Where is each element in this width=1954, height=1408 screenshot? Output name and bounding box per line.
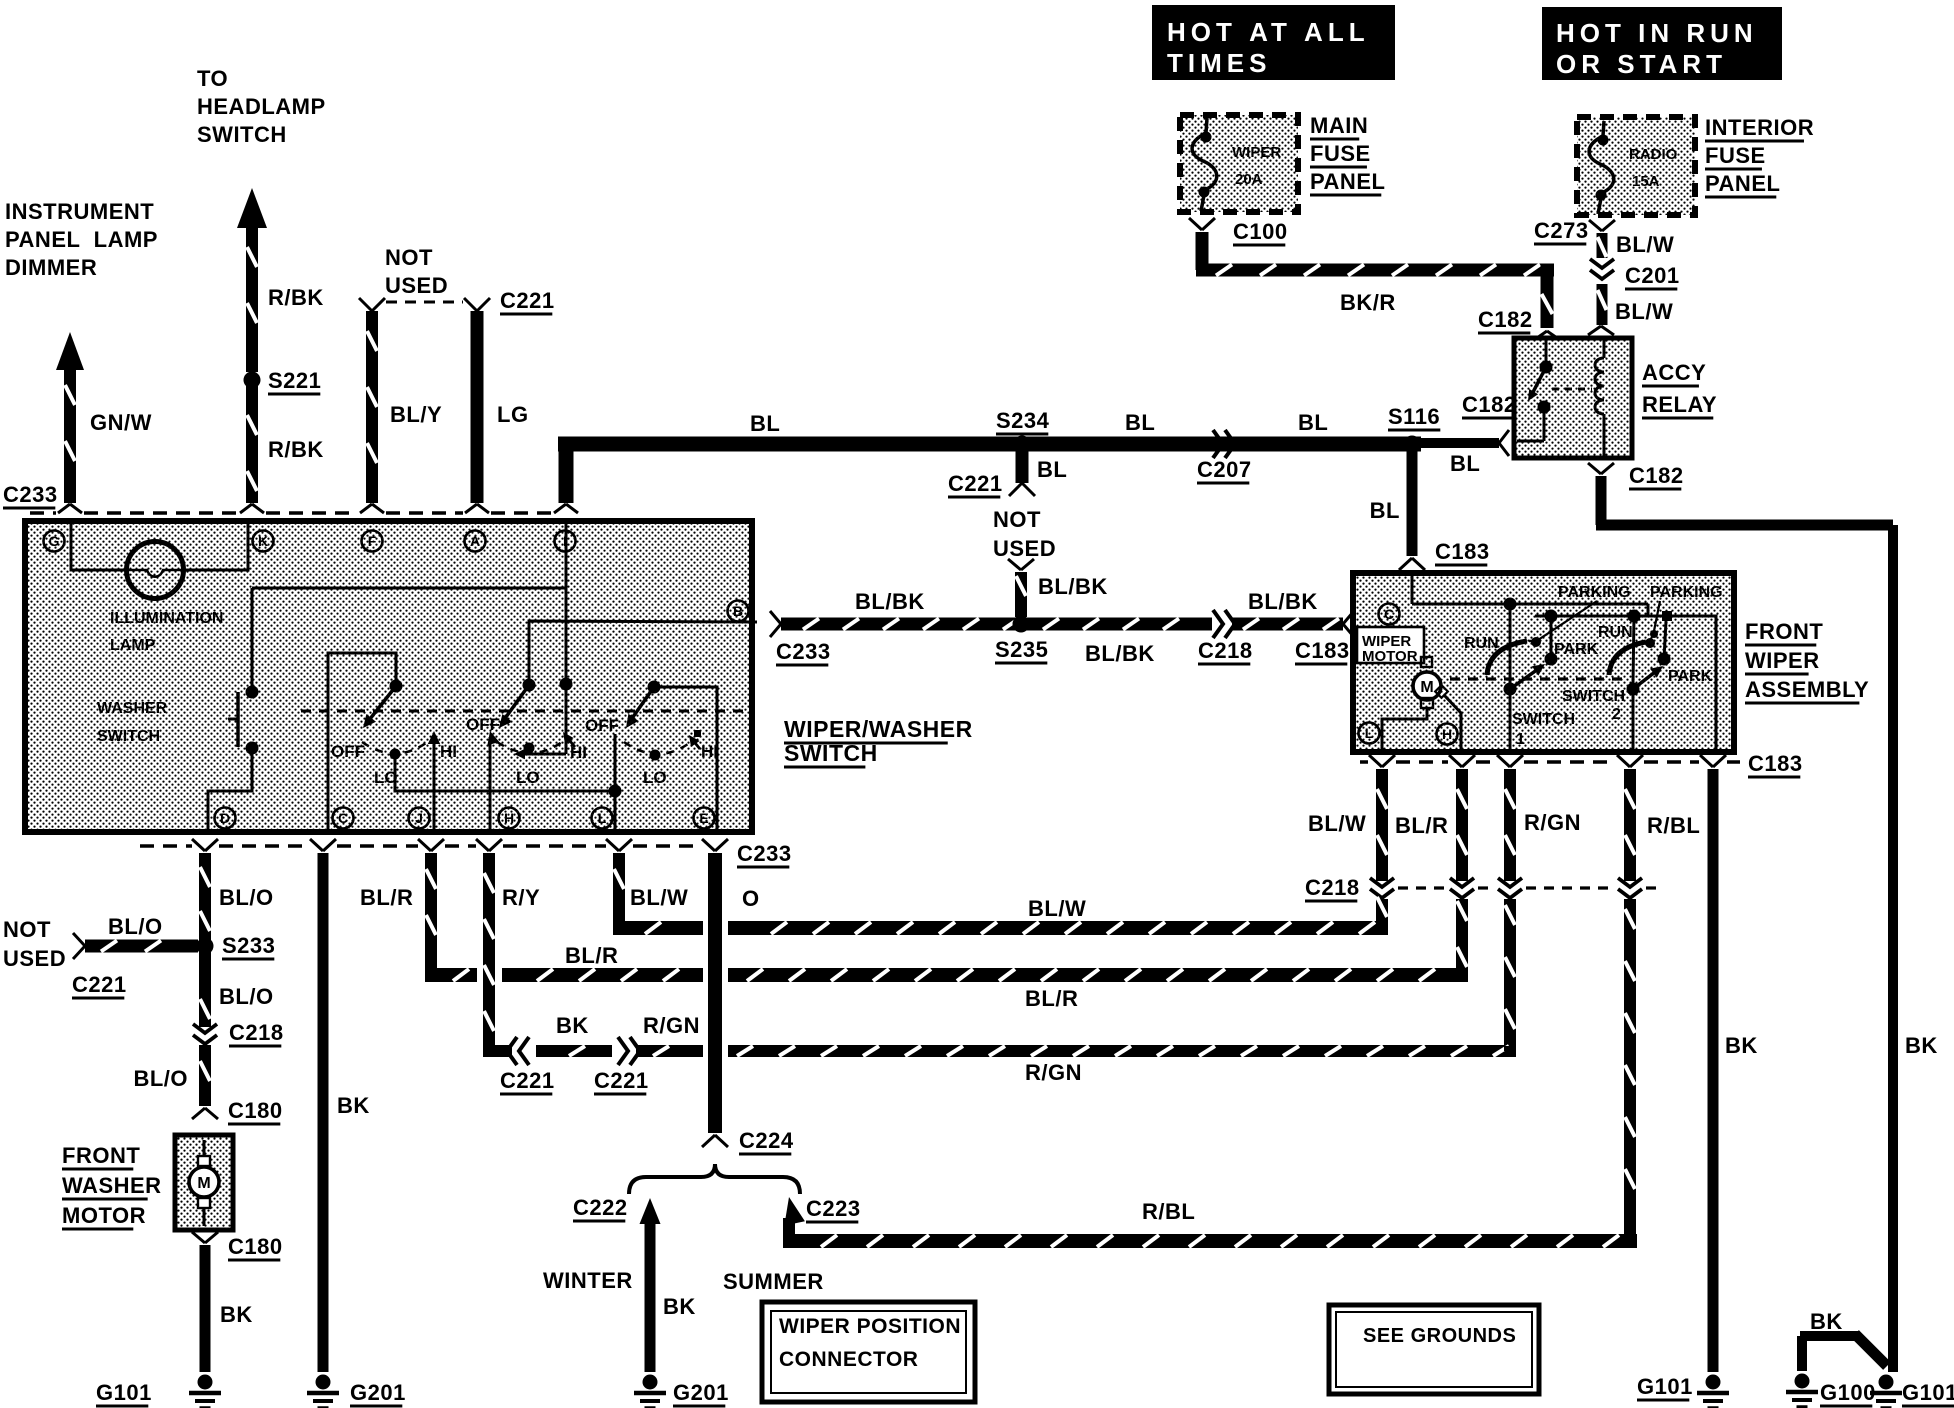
svg-text:BL/R: BL/R	[565, 943, 618, 968]
svg-text:R/GN: R/GN	[643, 1013, 700, 1038]
svg-text:OFF: OFF	[466, 715, 500, 734]
svg-text:HI: HI	[570, 743, 587, 762]
svg-text:C223: C223	[806, 1196, 861, 1221]
svg-text:WIPER: WIPER	[1745, 648, 1820, 673]
svg-text:S235: S235	[995, 637, 1048, 662]
svg-text:NOT: NOT	[3, 917, 51, 942]
svg-text:15A: 15A	[1632, 173, 1660, 190]
svg-text:LO: LO	[643, 768, 667, 787]
svg-text:G101: G101	[1902, 1380, 1954, 1405]
svg-text:LAMP: LAMP	[110, 637, 156, 654]
svg-text:C207: C207	[1197, 457, 1252, 482]
svg-text:HOT AT ALL: HOT AT ALL	[1167, 17, 1370, 47]
svg-text:BK: BK	[220, 1302, 253, 1327]
svg-text:C222: C222	[573, 1195, 628, 1220]
svg-text:C221: C221	[948, 471, 1003, 496]
svg-text:R/BL: R/BL	[1142, 1199, 1195, 1224]
svg-text:M: M	[197, 1175, 210, 1192]
svg-text:B: B	[733, 603, 743, 619]
svg-text:C233: C233	[3, 482, 58, 507]
svg-text:BL: BL	[750, 411, 780, 436]
svg-text:SWITCH: SWITCH	[1512, 711, 1575, 728]
svg-text:G101: G101	[1637, 1374, 1693, 1399]
svg-text:F: F	[368, 533, 377, 549]
svg-text:WIPER/WASHER: WIPER/WASHER	[784, 716, 973, 742]
svg-text:O: O	[742, 886, 760, 911]
svg-text:USED: USED	[993, 536, 1056, 561]
svg-text:BL: BL	[1298, 410, 1328, 435]
svg-text:R/GN: R/GN	[1524, 810, 1581, 835]
svg-text:C182: C182	[1462, 392, 1517, 417]
svg-text:BL/W: BL/W	[1615, 299, 1673, 324]
svg-text:R/BL: R/BL	[1647, 813, 1700, 838]
svg-text:OFF: OFF	[585, 716, 619, 735]
svg-text:WASHER: WASHER	[97, 700, 168, 717]
svg-text:J: J	[415, 810, 423, 826]
svg-text:G201: G201	[673, 1380, 729, 1405]
svg-text:H: H	[504, 810, 514, 826]
svg-text:2: 2	[1612, 706, 1621, 723]
svg-text:R/BK: R/BK	[268, 285, 324, 310]
svg-text:BL/O: BL/O	[219, 984, 274, 1009]
svg-text:K: K	[258, 533, 268, 549]
svg-text:TIMES: TIMES	[1167, 48, 1271, 78]
svg-text:SWITCH: SWITCH	[1562, 688, 1625, 705]
svg-text:C182: C182	[1478, 307, 1533, 332]
svg-text:HEADLAMP: HEADLAMP	[197, 94, 326, 119]
svg-text:E: E	[699, 810, 708, 826]
svg-text:BL/O: BL/O	[133, 1066, 188, 1091]
svg-text:ACCY: ACCY	[1642, 360, 1706, 385]
svg-text:C180: C180	[228, 1098, 283, 1123]
svg-text:LO: LO	[374, 768, 398, 787]
svg-text:CONNECTOR: CONNECTOR	[779, 1348, 918, 1371]
svg-text:RUN: RUN	[1464, 635, 1499, 652]
svg-text:C218: C218	[1305, 875, 1360, 900]
svg-text:C218: C218	[229, 1020, 284, 1045]
svg-text:PARKING: PARKING	[1558, 584, 1631, 601]
svg-text:WINTER: WINTER	[543, 1268, 633, 1293]
svg-text:USED: USED	[3, 946, 66, 971]
svg-text:BK/R: BK/R	[1340, 290, 1396, 315]
svg-text:BL/BK: BL/BK	[855, 589, 925, 614]
svg-text:PARKING: PARKING	[1650, 584, 1723, 601]
svg-text:BL/BK: BL/BK	[1038, 574, 1108, 599]
svg-text:C182: C182	[1629, 463, 1684, 488]
svg-text:H: H	[1442, 726, 1452, 742]
svg-text:C: C	[338, 810, 348, 826]
svg-text:ILLUMINATION: ILLUMINATION	[110, 610, 223, 627]
svg-text:R/GN: R/GN	[1025, 1060, 1082, 1085]
svg-text:BK: BK	[1725, 1033, 1758, 1058]
svg-text:R/Y: R/Y	[502, 885, 540, 910]
svg-text:C: C	[1384, 606, 1394, 622]
svg-text:MAIN: MAIN	[1310, 113, 1368, 138]
svg-text:DIMMER: DIMMER	[5, 255, 97, 280]
svg-text:FUSE: FUSE	[1310, 141, 1371, 166]
svg-text:C201: C201	[1625, 263, 1680, 288]
svg-text:TO: TO	[197, 66, 228, 91]
svg-text:C100: C100	[1233, 219, 1288, 244]
svg-text:WASHER: WASHER	[62, 1173, 162, 1198]
svg-text:20A: 20A	[1235, 171, 1263, 188]
svg-text:C273: C273	[1534, 218, 1589, 243]
svg-text:C218: C218	[1198, 638, 1253, 663]
svg-text:S234: S234	[996, 408, 1050, 433]
svg-text:BL/W: BL/W	[1308, 811, 1366, 836]
svg-text:HI: HI	[440, 742, 457, 761]
svg-text:C221: C221	[594, 1068, 649, 1093]
svg-text:RADIO: RADIO	[1629, 146, 1678, 163]
svg-text:HI: HI	[701, 742, 718, 761]
svg-text:M: M	[1420, 679, 1433, 696]
svg-text:G201: G201	[350, 1380, 406, 1405]
svg-text:L: L	[1365, 725, 1374, 741]
svg-text:PARK: PARK	[1554, 641, 1599, 658]
svg-text:BK: BK	[1905, 1033, 1938, 1058]
svg-text:C183: C183	[1435, 539, 1490, 564]
svg-text:G: G	[49, 533, 60, 549]
svg-text:PANEL: PANEL	[1705, 171, 1780, 196]
svg-text:NOT: NOT	[385, 245, 433, 270]
svg-text:C221: C221	[500, 288, 555, 313]
svg-text:SWITCH: SWITCH	[784, 740, 878, 766]
svg-text:S116: S116	[1388, 404, 1440, 429]
svg-text:ASSEMBLY: ASSEMBLY	[1745, 677, 1869, 702]
svg-text:BK: BK	[663, 1294, 696, 1319]
svg-text:C233: C233	[776, 639, 831, 664]
svg-text:SWITCH: SWITCH	[197, 122, 287, 147]
svg-text:BL/Y: BL/Y	[390, 402, 442, 427]
svg-text:BL/W: BL/W	[630, 885, 688, 910]
svg-text:BL/W: BL/W	[1616, 232, 1674, 257]
svg-text:C233: C233	[737, 841, 792, 866]
svg-text:WIPER POSITION: WIPER POSITION	[779, 1315, 961, 1338]
svg-text:C221: C221	[500, 1068, 555, 1093]
svg-text:C183: C183	[1295, 638, 1350, 663]
svg-text:BL/R: BL/R	[1025, 986, 1078, 1011]
svg-text:LG: LG	[497, 402, 529, 427]
svg-text:C224: C224	[739, 1128, 794, 1153]
svg-text:FRONT: FRONT	[62, 1143, 140, 1168]
svg-text:RELAY: RELAY	[1642, 392, 1717, 417]
svg-text:USED: USED	[385, 273, 448, 298]
svg-text:BK: BK	[1810, 1309, 1843, 1334]
svg-text:MOTOR: MOTOR	[62, 1203, 146, 1228]
svg-text:S221: S221	[268, 368, 321, 393]
svg-text:BL: BL	[1125, 410, 1155, 435]
svg-text:HOT IN RUN: HOT IN RUN	[1556, 18, 1758, 48]
svg-text:FUSE: FUSE	[1705, 143, 1766, 168]
svg-text:BK: BK	[337, 1093, 370, 1118]
svg-text:C221: C221	[72, 972, 127, 997]
svg-text:PARK: PARK	[1668, 668, 1713, 685]
svg-text:C180: C180	[228, 1234, 283, 1259]
svg-text:BL: BL	[1370, 498, 1400, 523]
svg-text:PANEL: PANEL	[1310, 169, 1385, 194]
svg-text:BK: BK	[556, 1013, 589, 1038]
svg-text:BL/R: BL/R	[360, 885, 413, 910]
svg-text:BL/BK: BL/BK	[1248, 589, 1318, 614]
svg-text:G101: G101	[96, 1380, 152, 1405]
svg-text:BL/R: BL/R	[1395, 813, 1448, 838]
svg-text:BL/W: BL/W	[1028, 896, 1086, 921]
svg-text:R/BK: R/BK	[268, 437, 324, 462]
svg-text:OR START: OR START	[1556, 49, 1727, 79]
svg-text:C183: C183	[1748, 751, 1803, 776]
svg-text:GN/W: GN/W	[90, 410, 152, 435]
svg-text:SUMMER: SUMMER	[723, 1269, 824, 1294]
svg-text:INTERIOR: INTERIOR	[1705, 115, 1814, 140]
svg-text:BL: BL	[1037, 457, 1067, 482]
svg-text:WIPER: WIPER	[1232, 144, 1281, 161]
svg-text:G100: G100	[1820, 1380, 1876, 1405]
svg-text:BL/O: BL/O	[108, 914, 163, 939]
svg-text:RUN: RUN	[1598, 624, 1633, 641]
svg-text:BL/BK: BL/BK	[1085, 641, 1155, 666]
svg-text:BL: BL	[1450, 451, 1480, 476]
svg-text:1: 1	[1516, 731, 1525, 748]
svg-text:NOT: NOT	[993, 507, 1041, 532]
svg-text:LO: LO	[516, 768, 540, 787]
svg-text:D: D	[220, 810, 230, 826]
svg-text:BL/O: BL/O	[219, 885, 274, 910]
svg-text:SWITCH: SWITCH	[97, 728, 160, 745]
svg-text:PANEL LAMP: PANEL LAMP	[5, 227, 158, 252]
svg-text:MOTOR: MOTOR	[1362, 648, 1418, 665]
svg-text:S233: S233	[222, 933, 275, 958]
svg-text:FRONT: FRONT	[1745, 619, 1823, 644]
svg-text:A: A	[470, 533, 480, 549]
svg-text:OFF: OFF	[331, 742, 365, 761]
svg-text:SEE GROUNDS: SEE GROUNDS	[1363, 1325, 1516, 1347]
svg-text:INSTRUMENT: INSTRUMENT	[5, 199, 154, 224]
svg-text:L: L	[598, 810, 607, 826]
